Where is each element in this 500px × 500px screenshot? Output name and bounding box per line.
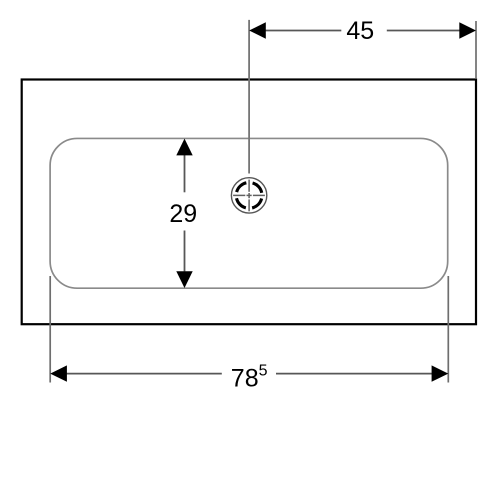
tap hole thick arcs — [233, 180, 264, 211]
dimension 45 line segments — [264, 30, 461, 32]
dimension 45 label — [346, 17, 374, 45]
dimension 78.5 label — [231, 362, 268, 392]
dimension 45 arrow right — [459, 22, 476, 38]
dimension 29 arrow down — [176, 271, 192, 288]
svg-text:785: 785 — [231, 362, 268, 392]
extension line bottom right (for dimension 78.5) — [447, 276, 449, 383]
dimension 78.5 arrow right — [432, 365, 449, 381]
extension line right (for dimension 45) — [475, 21, 477, 79]
dimension 29 arrow up — [176, 139, 192, 156]
dimension 78.5 arrow left — [50, 365, 67, 381]
dimension 29 line segments — [184, 155, 186, 271]
svg-text:29: 29 — [169, 200, 197, 228]
tap hole outer circle — [231, 178, 266, 213]
svg-text:45: 45 — [346, 17, 374, 45]
bowl inner outline (rounded basin) — [50, 138, 448, 288]
tap hole crosshair horizontal — [233, 194, 265, 196]
centerline from tap hole up to dimension 45 — [248, 20, 250, 174]
tap hole crosshair vertical — [248, 180, 250, 212]
dimension 78.5 line segments — [66, 373, 433, 375]
dimension 45 arrow left — [249, 22, 266, 38]
dimension 29 label — [169, 200, 197, 228]
extension line bottom left (for dimension 78.5) — [49, 276, 51, 383]
basin outer outline (90 cm washbasin, top view) — [22, 80, 476, 325]
